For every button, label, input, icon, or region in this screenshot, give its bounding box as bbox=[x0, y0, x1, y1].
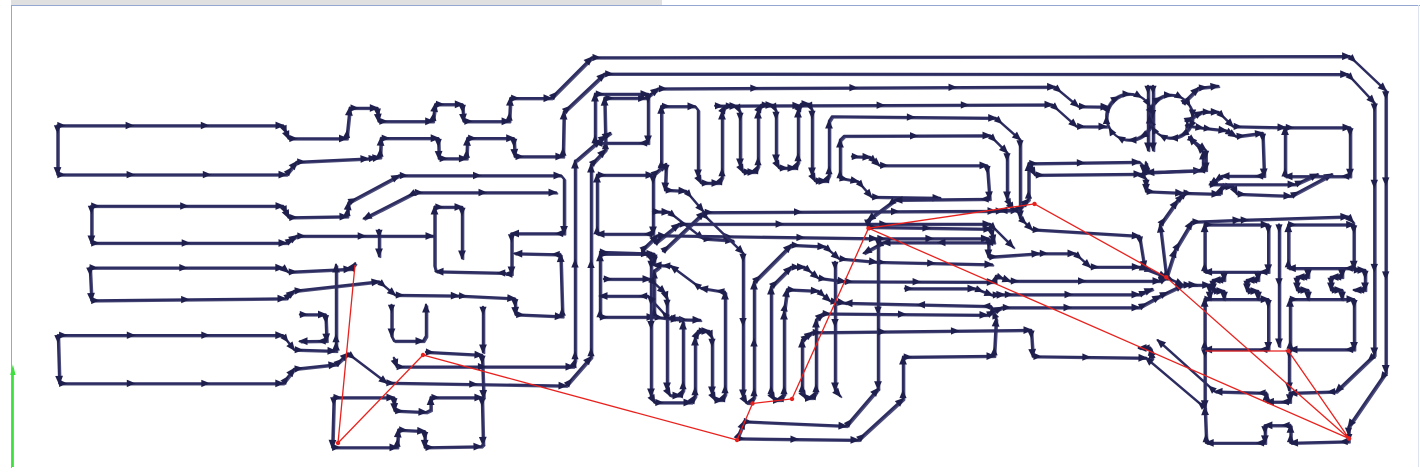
wire sqBL bbox=[1201, 295, 1272, 353]
wire bar2a bbox=[91, 172, 568, 278]
wire L1 bbox=[660, 136, 1207, 254]
wire sq2-top-stub bbox=[651, 163, 705, 213]
wire tabR bbox=[1352, 266, 1369, 294]
wire f6 bbox=[639, 232, 1168, 279]
wire bus281 bbox=[845, 273, 1168, 286]
wire circ-v2 bbox=[1149, 86, 1157, 152]
wire bar2b bbox=[91, 232, 435, 247]
wire bar3a bbox=[90, 262, 357, 276]
wire wB bbox=[737, 299, 1000, 444]
wire serp5b bbox=[780, 286, 847, 395]
wire serpU3 bbox=[798, 390, 817, 402]
wire sqA bbox=[1185, 122, 1267, 186]
wire bar2c-diag bbox=[362, 189, 417, 220]
travel move 9 (red) bbox=[1035, 204, 1169, 280]
wire pin-u bbox=[431, 203, 507, 277]
wire circ-v1 bbox=[1144, 86, 1152, 152]
wire bar1-left bbox=[54, 125, 62, 176]
wire comb bbox=[657, 100, 1168, 278]
wire sq1 bbox=[591, 90, 652, 147]
wire T4 bbox=[715, 101, 1108, 131]
wire sq2-stub bbox=[653, 208, 735, 244]
wire wA bbox=[852, 153, 997, 254]
travel move 11 (red) bbox=[1205, 349, 1291, 353]
circle pad 1 bbox=[1103, 90, 1156, 143]
wire e210 bbox=[998, 206, 1019, 214]
wire conn4 bbox=[1327, 268, 1346, 301]
travel move 8 (red) bbox=[869, 228, 1352, 440]
wire sqB bbox=[1281, 124, 1354, 181]
wire cx1 bbox=[1180, 83, 1220, 106]
wire bar4-left bbox=[54, 335, 63, 386]
wire bar1-top bbox=[57, 52, 1389, 447]
wire L1b bbox=[1027, 164, 1334, 200]
wire v483 bbox=[479, 307, 487, 354]
travel move 5 (red) bbox=[753, 397, 795, 404]
wire k3 bbox=[1165, 274, 1198, 289]
wire n4-j1 bbox=[333, 351, 388, 384]
wire bar4b bbox=[59, 361, 338, 387]
wire sq3b bbox=[600, 313, 702, 324]
wire serp3 bbox=[700, 211, 994, 405]
wire sq2 bbox=[593, 171, 657, 238]
wire comb2 bbox=[836, 132, 1014, 212]
wire vmid bbox=[1275, 224, 1283, 348]
wire sqTL bbox=[1201, 221, 1272, 276]
wire serp6b bbox=[812, 312, 824, 393]
wire wCj bbox=[1137, 344, 1156, 359]
wire bar2-bot bbox=[57, 70, 1378, 406]
wire busd bbox=[823, 281, 1214, 319]
wire bar2-left bbox=[88, 206, 96, 245]
wire u341 bbox=[388, 303, 430, 345]
wire comb2b bbox=[839, 174, 942, 201]
travel move 2 (red) bbox=[338, 353, 425, 443]
wire cx3 bbox=[1143, 134, 1210, 176]
start marker (green) bbox=[10, 365, 15, 468]
wire serp1 bbox=[600, 248, 729, 406]
wire sq3r bbox=[650, 268, 659, 317]
wire bus288 bbox=[905, 285, 1154, 299]
travel move 6 (red) bbox=[792, 226, 871, 399]
wire conn3 bbox=[1293, 268, 1312, 301]
wire hbox-left bbox=[329, 397, 338, 449]
wire serp7 bbox=[831, 262, 841, 398]
travel move 3 (red) bbox=[423, 355, 739, 442]
wire serp2 bbox=[598, 275, 687, 399]
wire bar4a bbox=[59, 331, 337, 354]
wire bar3-left bbox=[86, 267, 95, 302]
wire wA3 bbox=[744, 387, 880, 429]
travel move 7 (red) bbox=[869, 202, 1037, 229]
wire k5 bbox=[1163, 213, 1355, 279]
wire sqBR bbox=[1286, 295, 1358, 353]
wire wC bbox=[798, 326, 1148, 393]
wire k4 bbox=[1157, 190, 1187, 279]
wire sq1-diag1 bbox=[598, 132, 612, 143]
wire cx2 bbox=[1184, 108, 1287, 131]
wire n4b bbox=[386, 149, 606, 390]
wire bar3c bbox=[298, 311, 330, 346]
wire sqTR bbox=[1284, 221, 1357, 272]
travel move 1 (red) bbox=[336, 265, 355, 445]
travel move 12 (red) bbox=[1288, 351, 1351, 441]
wire n4a bbox=[397, 139, 602, 371]
wire hbox-top bbox=[334, 394, 487, 447]
wire serp5 bbox=[767, 263, 847, 395]
travel move 10 (red) bbox=[1166, 277, 1351, 440]
wire hbox-bot bbox=[332, 426, 484, 451]
wire bar2c bbox=[415, 189, 558, 197]
wire bar3b bbox=[91, 250, 566, 320]
wire vbus bbox=[874, 238, 882, 390]
wire f5 bbox=[653, 220, 1015, 248]
wire w355 bbox=[426, 348, 488, 399]
wire stub379 bbox=[375, 230, 383, 258]
wire sq3 bbox=[596, 250, 658, 318]
wire T3 bbox=[601, 83, 1110, 150]
wire serpU2 bbox=[767, 392, 785, 404]
wire court-l1 bbox=[1210, 174, 1320, 189]
wire conn1 bbox=[1209, 272, 1228, 301]
wire court-b2 bbox=[1285, 350, 1293, 392]
wire n4-j2 bbox=[391, 358, 399, 369]
wire brleft bbox=[1201, 349, 1209, 409]
wire bar4-vert bbox=[332, 263, 340, 352]
wire conn2 bbox=[1243, 272, 1262, 301]
wire wA2 bbox=[734, 420, 746, 440]
travel move 4 (red) bbox=[737, 401, 755, 440]
circle pad 2 bbox=[1146, 91, 1197, 142]
